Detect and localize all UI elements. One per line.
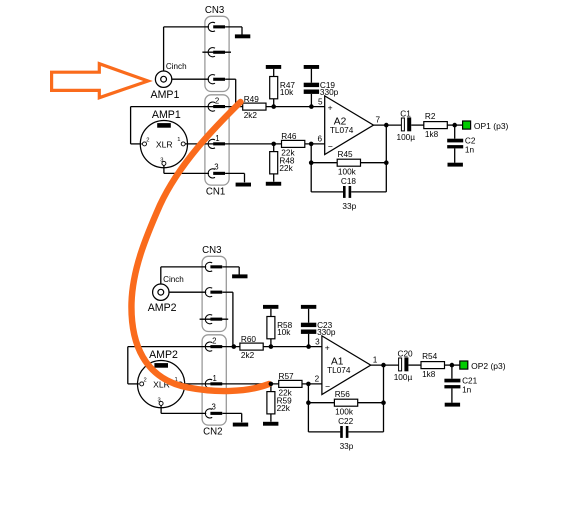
output pad OP1: [463, 121, 509, 131]
wire: [225, 27, 242, 35]
pin 1 of CN1: [208, 134, 225, 149]
node junction: [306, 400, 311, 405]
svg-text:R45: R45: [338, 150, 354, 159]
op-amp A2: [317, 96, 380, 155]
wire: [222, 292, 233, 346]
resistor R57: [279, 372, 303, 398]
node junction: [271, 104, 276, 109]
svg-text:R46: R46: [281, 132, 297, 141]
node junction: [271, 142, 276, 147]
svg-text:AMP2: AMP2: [149, 349, 178, 361]
pin 3 of CN3: [205, 315, 222, 324]
node junction: [381, 400, 386, 405]
pin 3 of CN1: [208, 162, 225, 178]
node junction: [452, 123, 457, 128]
svg-text:10k: 10k: [280, 88, 294, 97]
node junction: [384, 123, 389, 128]
svg-text:100k: 100k: [338, 167, 357, 176]
wire (feedback left): [307, 384, 309, 432]
svg-text:10k: 10k: [277, 328, 291, 337]
svg-text:CN1: CN1: [206, 186, 225, 197]
svg-text:100µ: 100µ: [397, 133, 416, 142]
svg-text:R49: R49: [244, 95, 260, 104]
resistor R46: [281, 132, 305, 158]
svg-text:TL074: TL074: [330, 126, 354, 135]
node junction: [384, 160, 389, 165]
svg-text:R60: R60: [241, 335, 257, 344]
resistor R49: [243, 95, 266, 120]
pin 2 of CN3: [205, 288, 222, 297]
svg-text:2k2: 2k2: [244, 111, 258, 120]
wire: [164, 27, 209, 71]
svg-text:C1: C1: [400, 109, 411, 118]
svg-text:1: 1: [215, 134, 219, 143]
svg-text:R56: R56: [335, 390, 351, 399]
connector CN3 (upper header): [205, 5, 229, 91]
svg-text:3: 3: [158, 397, 161, 403]
svg-text:2k2: 2k2: [241, 351, 255, 360]
op-amp A1: [315, 336, 378, 395]
svg-text:R54: R54: [422, 352, 438, 361]
wire (feedback left): [310, 144, 312, 192]
ground: [232, 274, 247, 278]
resistor R45: [311, 150, 386, 176]
connector CN1 (lower header): [205, 95, 229, 198]
svg-text:AMP1: AMP1: [151, 89, 180, 101]
resistor R54: [421, 352, 445, 379]
XLR connector AMP1: [140, 109, 187, 168]
node junction: [309, 160, 314, 165]
wire (main input node): [128, 347, 240, 384]
svg-text:+: +: [325, 342, 330, 352]
svg-text:1n: 1n: [462, 385, 472, 394]
supply rail bar above R58: [263, 305, 278, 309]
svg-text:−: −: [328, 141, 333, 151]
svg-text:C22: C22: [338, 417, 354, 426]
connector CN2 (lower header): [202, 335, 226, 438]
svg-text:1: 1: [177, 137, 180, 143]
wire (main input node): [131, 107, 243, 144]
orange annotation curve from AMP1 input node to R57 node: [131, 102, 269, 391]
svg-text:2: 2: [315, 375, 320, 384]
svg-text:CN3: CN3: [202, 245, 221, 256]
cinch connector AMP1: [151, 62, 187, 101]
ground: [236, 183, 251, 187]
capacitor C21: [444, 365, 477, 403]
svg-text:3: 3: [160, 157, 163, 163]
pin 1 of CN3: [208, 22, 225, 31]
output pad OP2: [460, 361, 506, 371]
pin 2 of CN3: [208, 48, 225, 57]
orange annotation arrow pointing at cinch AMP1: [52, 64, 148, 98]
svg-text:1k8: 1k8: [425, 130, 439, 139]
wire (op-amp output): [374, 124, 402, 126]
wire (op-amp + input node): [263, 346, 322, 348]
svg-text:33p: 33p: [342, 202, 356, 211]
svg-text:AMP2: AMP2: [148, 302, 177, 314]
node junction: [381, 363, 386, 368]
connector CN3 (upper header): [202, 245, 226, 331]
svg-text:2: 2: [144, 378, 147, 384]
svg-text:AMP1: AMP1: [152, 109, 181, 121]
svg-text:R57: R57: [279, 372, 295, 381]
node junction: [269, 344, 274, 349]
node junction: [450, 363, 455, 368]
resistor R47: [270, 69, 296, 107]
supply rail bar above R47: [266, 65, 281, 69]
svg-text:C18: C18: [341, 177, 357, 186]
wire: [161, 267, 206, 284]
svg-text:3: 3: [214, 162, 218, 171]
node junction: [306, 382, 311, 387]
svg-text:22k: 22k: [279, 164, 293, 173]
node junction: [309, 104, 314, 109]
svg-text:TL074: TL074: [327, 366, 351, 375]
pin 1 of CN2: [205, 374, 222, 388]
svg-text:100µ: 100µ: [394, 373, 413, 382]
svg-text:OP1 (p3): OP1 (p3): [474, 121, 509, 131]
wire: [408, 364, 421, 366]
pin 2 of CN2: [205, 336, 222, 351]
wire: [225, 173, 244, 182]
capacitor C22: [308, 417, 383, 451]
pin 2 of CN1: [208, 96, 225, 111]
svg-text:2: 2: [146, 138, 149, 144]
XLR connector AMP2: [138, 349, 185, 408]
resistor R2: [424, 112, 448, 139]
svg-text:+: +: [328, 102, 333, 112]
pin 1 of CN3: [205, 262, 222, 271]
wire: [161, 406, 206, 414]
svg-text:2: 2: [212, 336, 216, 345]
wire: [411, 124, 424, 126]
svg-text:2: 2: [215, 96, 219, 105]
capacitor C18: [311, 177, 386, 211]
svg-text:OP2 (p3): OP2 (p3): [471, 361, 506, 371]
wire: [445, 364, 460, 366]
svg-text:330p: 330p: [317, 328, 336, 337]
svg-text:CN3: CN3: [205, 5, 224, 16]
ground: [448, 163, 463, 167]
svg-text:1: 1: [373, 355, 378, 364]
node junction at R49: [234, 104, 239, 109]
svg-text:3: 3: [315, 337, 320, 346]
svg-text:1: 1: [213, 374, 217, 383]
ground: [266, 182, 281, 186]
svg-text:33p: 33p: [340, 442, 354, 451]
wire: [225, 79, 236, 106]
svg-text:−: −: [325, 381, 330, 391]
svg-text:3: 3: [212, 402, 216, 411]
capacitor C2: [447, 125, 476, 163]
wire: [222, 267, 239, 275]
svg-text:330p: 330p: [320, 88, 339, 97]
svg-text:Cinch: Cinch: [166, 62, 187, 71]
svg-text:CN2: CN2: [203, 426, 222, 437]
svg-text:1k8: 1k8: [422, 370, 436, 379]
node junction: [306, 344, 311, 349]
resistor R59: [267, 384, 292, 422]
svg-text:6: 6: [317, 135, 322, 144]
ground: [445, 403, 460, 407]
node junction: [309, 142, 314, 147]
svg-text:XLR: XLR: [156, 140, 173, 150]
supply rail bar above C19: [304, 65, 319, 69]
wire (unconnected pin stub): [202, 51, 231, 53]
capacitor C23: [301, 309, 336, 347]
wire: [305, 143, 325, 145]
svg-text:Cinch: Cinch: [163, 275, 184, 284]
wire: [169, 291, 206, 293]
wire: [172, 78, 209, 80]
svg-text:R2: R2: [425, 112, 436, 121]
resistor R48: [270, 144, 295, 182]
resistor R56: [308, 390, 383, 416]
resistor R58: [267, 309, 293, 347]
supply rail bar above C23: [301, 305, 316, 309]
resistor R60: [240, 335, 263, 360]
wire (op-amp + input node): [266, 106, 325, 108]
node junction at R60: [232, 344, 237, 349]
wire (feedback right): [383, 365, 385, 432]
ground: [233, 423, 248, 427]
svg-text:22k: 22k: [277, 404, 291, 413]
capacitor C19: [304, 69, 339, 107]
capacitor C1 (electrolytic): [397, 109, 416, 142]
pin 3 of CN3: [208, 75, 225, 84]
node junction at R57/R59: [269, 382, 274, 387]
wire (op-amp output): [371, 364, 399, 366]
capacitor C20 (electrolytic): [394, 349, 413, 382]
pin 3 of CN2: [205, 402, 222, 418]
wire (inverting input node): [185, 143, 281, 145]
wire (feedback right): [385, 125, 387, 192]
wire: [222, 413, 241, 422]
svg-text:C20: C20: [398, 349, 414, 358]
wire: [447, 124, 462, 126]
ground: [235, 34, 250, 38]
svg-text:100k: 100k: [335, 407, 354, 416]
wire (inverting input node): [183, 383, 279, 385]
svg-text:1n: 1n: [465, 145, 475, 154]
wire: [164, 166, 209, 174]
cinch connector AMP2: [148, 275, 184, 314]
svg-text:5: 5: [318, 97, 323, 106]
ground: [263, 422, 278, 426]
wire (unconnected pin stub): [200, 318, 229, 320]
svg-text:7: 7: [376, 115, 381, 124]
wire: [302, 383, 322, 385]
